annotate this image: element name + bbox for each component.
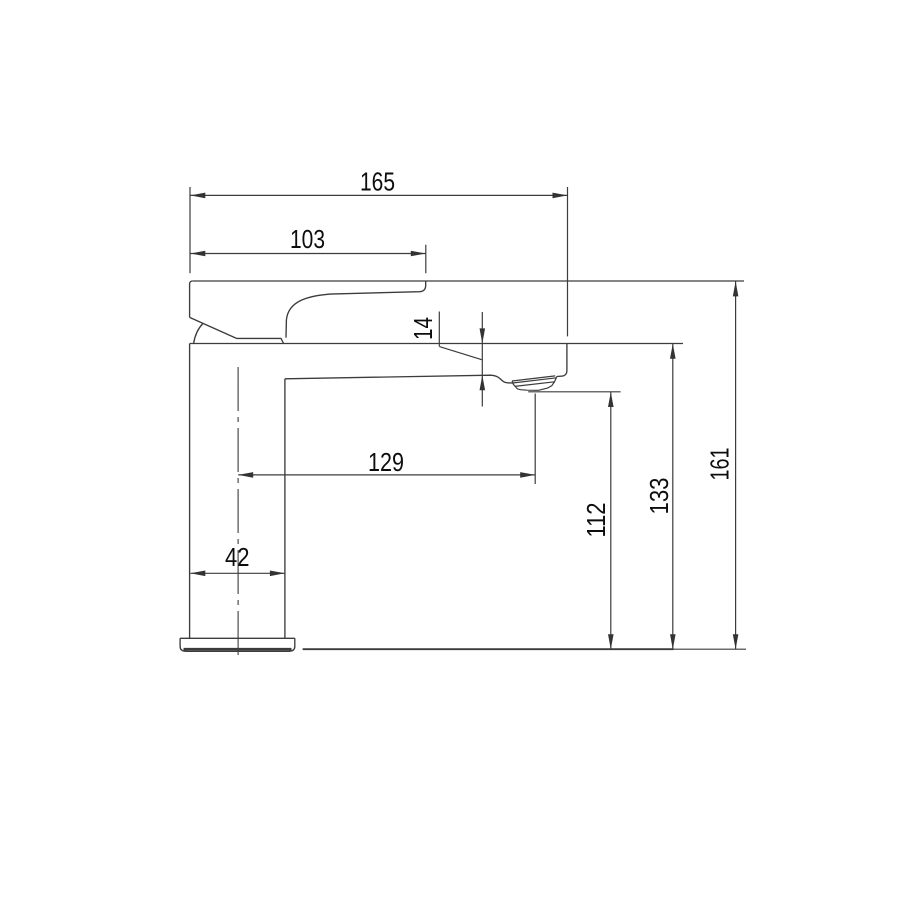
svg-text:129: 129 bbox=[368, 447, 404, 477]
aerator lower band line bbox=[515, 382, 555, 387]
centerline bbox=[237, 367, 239, 656]
svg-text:103: 103 bbox=[290, 224, 325, 254]
arrow 42 right bbox=[270, 571, 285, 577]
arrow 161 bottom bbox=[733, 634, 739, 649]
extension line right x567.5 bbox=[567, 187, 569, 336]
svg-text:112: 112 bbox=[581, 503, 611, 538]
svg-text:161: 161 bbox=[705, 448, 735, 481]
lever handle outline bbox=[286, 281, 426, 338]
svg-text:165: 165 bbox=[360, 167, 395, 197]
arrow 103 left bbox=[190, 251, 205, 257]
dimension line 14 bbox=[481, 312, 483, 407]
arrow 14 bottom bbox=[480, 375, 486, 390]
extension line left x190 bbox=[189, 187, 191, 273]
arrow 129 right bbox=[520, 472, 535, 478]
body right edge bbox=[284, 379, 286, 639]
wire mid reference line y343.5 bbox=[190, 343, 683, 345]
dimension line 103 bbox=[190, 253, 425, 255]
arrow 133 top bbox=[670, 344, 676, 359]
dimension line 129 bbox=[238, 474, 535, 476]
arrow 103 right bbox=[411, 251, 426, 257]
dimension line 165 bbox=[190, 194, 567, 196]
svg-text:14: 14 bbox=[408, 317, 438, 340]
spout rear diagonal bbox=[439, 347, 482, 360]
extension line 103 right bbox=[425, 245, 427, 274]
arrow 112 bottom bbox=[608, 634, 614, 649]
arrow 165 right bbox=[553, 193, 568, 199]
arrow 112 top bbox=[608, 392, 614, 407]
arrow 161 top bbox=[733, 281, 739, 296]
wire top reference line y281 bbox=[192, 280, 744, 282]
aerator top band line bbox=[512, 376, 555, 381]
bottom reference line thick part bbox=[303, 648, 674, 650]
body left edge bbox=[189, 344, 191, 639]
aerator mid band line bbox=[513, 378, 557, 383]
dimension line 112 bbox=[610, 392, 612, 649]
dimension line 42 bbox=[190, 572, 285, 574]
reference line 112 top bbox=[528, 391, 620, 393]
arrow 165 left bbox=[190, 193, 205, 199]
spout right end bbox=[557, 344, 567, 377]
dimension line 133 bbox=[672, 344, 674, 650]
base plate inner bottom line bbox=[184, 648, 292, 651]
handle chamfer diagonal bbox=[190, 317, 237, 338]
extension line aerator down bbox=[534, 394, 536, 485]
svg-text:133: 133 bbox=[644, 478, 674, 515]
base plate outline bbox=[180, 638, 295, 651]
arrow 133 bottom bbox=[670, 634, 676, 649]
arrow 14 top bbox=[480, 328, 486, 343]
dimension line 161 bbox=[735, 281, 737, 649]
extension line 14 bbox=[438, 312, 440, 347]
escutcheon top edge bbox=[237, 338, 284, 343]
escutcheon left arc bbox=[194, 324, 203, 344]
arrow 129 left bbox=[238, 472, 253, 478]
spout underside bbox=[285, 375, 513, 383]
bottom reference line thin part bbox=[674, 648, 747, 650]
arrow 42 left bbox=[190, 571, 205, 577]
aerator outline bbox=[512, 376, 557, 390]
handle left edge bbox=[190, 281, 193, 317]
svg-text:42: 42 bbox=[225, 542, 250, 572]
